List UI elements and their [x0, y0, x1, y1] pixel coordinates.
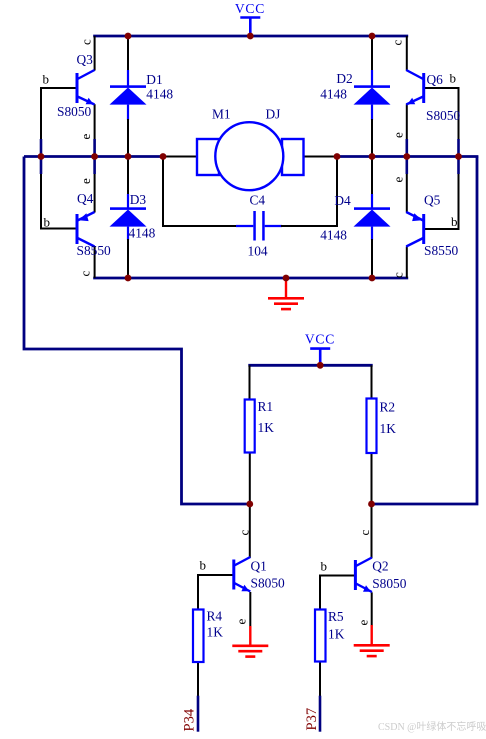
pin label Q3 c	[79, 39, 94, 45]
svg-text:4148: 4148	[146, 87, 173, 102]
svg-text:b: b	[450, 71, 457, 86]
pin label Q1 c	[237, 530, 252, 536]
svg-text:M1: M1	[212, 107, 231, 122]
diode D1	[110, 85, 147, 104]
transistor Q6	[406, 70, 424, 105]
resistor R2	[367, 399, 377, 454]
transistor Q2	[355, 558, 372, 593]
wire long left run	[24, 157, 251, 505]
svg-text:Q2: Q2	[372, 559, 388, 574]
label Q6	[426, 72, 461, 123]
svg-text:CSDN @叶绿体不忘呼吸: CSDN @叶绿体不忘呼吸	[378, 720, 486, 733]
svg-text:c: c	[357, 530, 372, 536]
svg-text:R4: R4	[207, 609, 223, 624]
pin label Q3 e	[78, 134, 93, 140]
wire Q6 collector	[406, 36, 408, 71]
svg-text:Q5: Q5	[424, 193, 441, 208]
pin label Q6 b	[450, 71, 457, 86]
wire R1 bottom / Q1 collector	[249, 452, 251, 558]
wire left base riser	[40, 88, 42, 229]
svg-text:D3: D3	[130, 192, 147, 207]
pin label Q3 b	[43, 72, 50, 87]
svg-text:c: c	[79, 39, 94, 45]
svg-text:e: e	[391, 177, 406, 183]
wire D4 leads	[371, 157, 373, 279]
diode D4	[354, 207, 391, 226]
diode D2	[354, 85, 391, 104]
pin label Q2 b	[321, 559, 328, 574]
svg-text:Q4: Q4	[77, 191, 94, 206]
ground (Q1 emitter)	[232, 626, 268, 657]
svg-text:R5: R5	[328, 609, 344, 624]
pin label Q5 b	[451, 214, 458, 229]
wire C4 right branch	[336, 155, 338, 227]
wire lower VCC rail	[248, 364, 372, 367]
label Q2	[372, 559, 407, 592]
svg-text:VCC: VCC	[235, 1, 265, 16]
wire top VCC rail	[93, 35, 408, 38]
svg-text:e: e	[78, 134, 93, 140]
label D1	[146, 72, 173, 102]
svg-text:P34: P34	[182, 708, 198, 731]
wire right base riser	[458, 88, 460, 230]
ground (Q2 emitter)	[354, 625, 390, 656]
svg-text:4148: 4148	[320, 228, 347, 243]
svg-text:b: b	[321, 559, 328, 574]
svg-text:S8050: S8050	[251, 576, 286, 591]
svg-text:S8050: S8050	[57, 104, 92, 119]
pin label Q6 c	[390, 40, 405, 46]
svg-text:1K: 1K	[380, 421, 397, 436]
wire Q4 base	[40, 228, 77, 230]
resistor R4	[193, 610, 204, 663]
svg-text:1K: 1K	[258, 420, 275, 435]
wire Q2 base + R5 riser	[319, 575, 355, 610]
svg-text:1K: 1K	[328, 627, 345, 642]
wire Q4 collector	[94, 247, 96, 279]
svg-text:C4: C4	[250, 193, 266, 208]
svg-text:c: c	[390, 40, 405, 46]
svg-text:104: 104	[248, 244, 268, 259]
wire Q1 base + R4 riser	[197, 574, 234, 610]
power symbol VCC (lower)	[305, 332, 335, 366]
wire Q5 emitter	[405, 157, 408, 213]
label R1	[258, 399, 275, 435]
wire C4 horizontal	[162, 225, 338, 227]
pin label Q2 c	[357, 530, 372, 536]
svg-text:e: e	[391, 132, 406, 138]
svg-text:e: e	[356, 620, 371, 626]
wire Q6 base	[424, 87, 460, 89]
wire Q3 collector	[94, 36, 96, 71]
svg-text:c: c	[78, 271, 93, 277]
svg-text:c: c	[237, 530, 252, 536]
watermark	[378, 720, 486, 733]
wire R1 top riser	[249, 365, 251, 400]
label Q1	[251, 559, 286, 591]
wire mid rail left	[24, 155, 198, 158]
pin label Q4 b	[44, 215, 51, 230]
wire Q1 emitter	[249, 592, 251, 627]
label Q3	[57, 52, 93, 119]
wire R4 to P34	[197, 662, 199, 732]
svg-text:DJ: DJ	[266, 107, 281, 122]
svg-text:b: b	[43, 72, 50, 87]
svg-text:4148: 4148	[129, 226, 156, 241]
junction dots bottom rail	[125, 275, 376, 282]
label R4	[207, 609, 224, 640]
pin label Q4 e	[78, 178, 93, 184]
wire R2 top riser	[371, 365, 373, 399]
wire Q4 emitter	[93, 157, 96, 213]
svg-text:Q6: Q6	[427, 72, 444, 87]
junction dots mid rail	[38, 153, 462, 160]
svg-text:R2: R2	[380, 400, 396, 415]
svg-text:e: e	[78, 178, 93, 184]
svg-text:S8550: S8550	[77, 243, 112, 258]
svg-text:S8550: S8550	[424, 243, 459, 258]
pin label Q5 e	[391, 177, 406, 183]
svg-text:D1: D1	[146, 72, 162, 87]
wire Q5 collector	[406, 247, 408, 279]
capacitor C4	[253, 211, 264, 241]
wire mid rail right	[303, 156, 479, 158]
label C4	[248, 193, 268, 259]
wire C4 left branch	[162, 155, 164, 227]
svg-text:S8050: S8050	[426, 108, 461, 123]
svg-text:VCC: VCC	[305, 332, 335, 347]
wire D3 leads	[127, 157, 129, 279]
wire Q3 base	[40, 87, 77, 89]
label D2	[320, 71, 353, 102]
wire bottom rail	[93, 277, 408, 280]
svg-text:b: b	[200, 558, 207, 573]
diode D3	[110, 207, 147, 226]
pin label Q1 e	[234, 619, 249, 625]
label D4	[320, 193, 351, 243]
pin label Q5 c	[391, 272, 406, 278]
wire Q3 emitter	[94, 104, 96, 156]
label R5	[328, 609, 345, 642]
wire Q6 emitter	[406, 104, 408, 156]
wire D1 anode/cathode leads	[127, 36, 129, 158]
wire Q5 base	[424, 228, 460, 230]
pin label Q6 e	[391, 132, 406, 138]
svg-text:D2: D2	[336, 71, 352, 86]
motor M1 body	[215, 122, 283, 190]
svg-text:S8050: S8050	[372, 576, 407, 591]
wire R5 to P37	[319, 661, 321, 732]
label M1 DJ	[212, 107, 280, 122]
resistor R5	[315, 610, 326, 662]
junction dots top rail	[125, 33, 376, 40]
pin label Q2 e	[356, 620, 371, 626]
label Q5	[424, 193, 459, 259]
svg-text:P37: P37	[304, 708, 320, 731]
wire R2 bottom / Q2 collector	[371, 453, 373, 558]
svg-text:Q1: Q1	[251, 559, 267, 574]
net label P37	[304, 708, 320, 731]
svg-text:R1: R1	[258, 399, 274, 414]
pin label Q1 b	[200, 558, 207, 573]
wire D2 leads	[371, 36, 373, 158]
pin label Q4 c	[78, 271, 93, 277]
label D3	[129, 192, 156, 241]
svg-text:e: e	[234, 619, 249, 625]
transistor Q1	[234, 557, 251, 592]
resistor R1	[245, 400, 255, 453]
label R2	[380, 400, 397, 437]
wire Q2 emitter	[371, 592, 373, 626]
svg-text:b: b	[451, 214, 458, 229]
power symbol VCC (top)	[235, 1, 265, 36]
transistor Q5	[406, 212, 424, 247]
transistor Q3	[77, 70, 95, 105]
svg-text:1K: 1K	[207, 625, 224, 640]
svg-text:b: b	[44, 215, 51, 230]
svg-text:c: c	[391, 272, 406, 278]
svg-text:D4: D4	[334, 193, 351, 208]
label Q4	[77, 191, 112, 258]
net label P34	[182, 708, 198, 731]
junction dots lower section	[246, 362, 374, 508]
svg-text:4148: 4148	[320, 87, 347, 102]
wire long right run	[370, 157, 477, 505]
motor M1 brushes	[197, 139, 304, 175]
ground (H-bridge)	[268, 278, 304, 309]
transistor Q4	[77, 212, 95, 247]
svg-text:Q3: Q3	[77, 52, 94, 67]
